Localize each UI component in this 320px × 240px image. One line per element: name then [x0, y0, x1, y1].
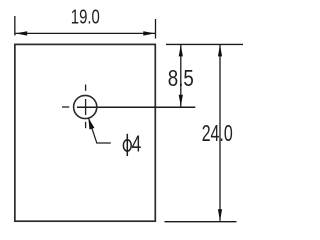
- svg-text:4: 4: [132, 130, 142, 156]
- arrow right of 19.0 dim: [143, 31, 155, 35]
- extension line left (for 19.0): [14, 16, 16, 36]
- top extension line (for 8.5 and 24.0): [166, 43, 243, 45]
- part outline rectangle: [15, 44, 155, 221]
- arrow top of 8.5 dim: [179, 45, 183, 57]
- phi symbol of phi4 label: [123, 134, 131, 156]
- svg-text:8.5: 8.5: [168, 65, 194, 91]
- leader line diagonal (for phi4): [89, 118, 111, 143]
- center mark vertical dash above: [85, 85, 87, 91]
- extension line at hole center (for 8.5): [77, 106, 195, 108]
- arrow left of 19.0 dim: [15, 31, 27, 35]
- svg-text:19.0: 19.0: [71, 7, 100, 29]
- center mark horizontal dash left: [62, 106, 69, 108]
- arrow top of 24.0 dim: [218, 45, 222, 57]
- leader arrowhead: [88, 118, 94, 130]
- center mark vertical solid: [85, 99, 87, 115]
- hole circle: [74, 95, 97, 118]
- svg-text:24.0: 24.0: [202, 120, 233, 146]
- bottom extension line (for 24.0): [165, 221, 237, 223]
- dimension line 8.5: [180, 45, 182, 107]
- arrow bottom of 24.0 dim: [218, 209, 222, 221]
- center mark vertical dash below: [85, 122, 87, 128]
- dimension line 19.0: [15, 32, 155, 34]
- dimension line 24.0: [219, 45, 221, 221]
- extension line right (for 19.0): [155, 19, 157, 39]
- arrow bottom of 8.5 dim: [179, 95, 183, 107]
